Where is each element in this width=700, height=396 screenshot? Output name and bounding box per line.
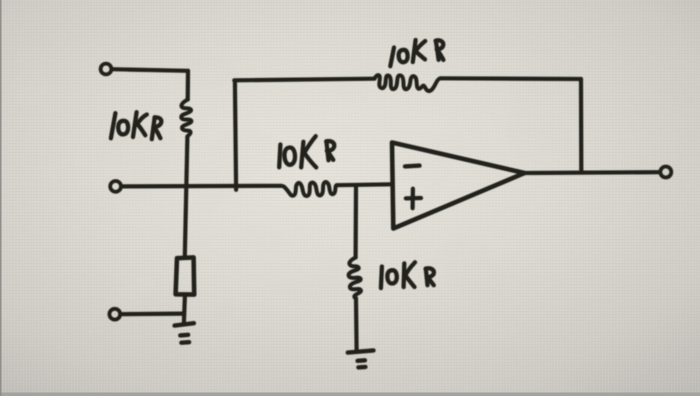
wire R1 to box resistor R3 <box>185 137 188 257</box>
op-amp minus sign <box>405 163 420 168</box>
terminal top-left input <box>101 64 112 75</box>
wire feedback top left segment <box>234 79 374 81</box>
wire middle horizontal left segment <box>121 184 281 189</box>
terminal middle-left input <box>110 181 121 192</box>
left edge line <box>0 0 2 396</box>
wire feedback down to output <box>579 79 583 172</box>
op-amp U1 <box>392 143 525 229</box>
bottom edge band <box>0 393 700 396</box>
wire down to R1 <box>186 71 191 100</box>
label 10K R for R4 <box>390 40 443 66</box>
ground bottom-middle <box>348 350 374 367</box>
wire middle horizontal right segment to op-amp <box>337 182 391 187</box>
resistor R3 box <box>176 257 195 294</box>
resistor R5 10K vertical squiggle <box>349 258 361 299</box>
wire R5 to ground <box>354 298 359 350</box>
label 10K R for R5 <box>381 262 434 288</box>
wire junction down to R5 <box>354 186 359 258</box>
wire feedback top right segment <box>441 76 581 81</box>
resistor R1 10K vertical squiggle <box>181 100 191 137</box>
ground left <box>175 323 194 343</box>
label 10KR for R1 <box>111 112 161 139</box>
resistor R2 10K horizontal squiggle <box>281 182 337 196</box>
wire junction up to feedback <box>235 81 236 190</box>
op-amp plus sign <box>406 189 421 209</box>
label 10K R for R2 <box>279 136 334 167</box>
terminal bottom-left <box>109 309 120 320</box>
resistor R4 10K feedback squiggle <box>375 75 442 91</box>
wire top-left horizontal <box>112 69 188 71</box>
wire bottom-left horizontal <box>120 312 184 317</box>
wire output <box>525 170 660 175</box>
terminal output <box>660 167 671 178</box>
wire R3 to ground <box>184 296 185 323</box>
